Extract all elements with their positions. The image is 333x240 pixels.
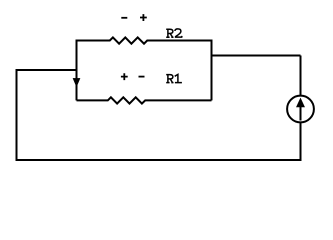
current source I1 [287,96,314,123]
wire bottom [17,159,302,161]
wire junction to source (horizontal) [212,55,301,57]
polarity plus of R1 [121,73,128,80]
label R2 [166,29,182,37]
polarity minus of R1 [139,76,145,78]
wire right vertical above source [300,56,302,97]
wire right inner vertical [211,40,213,101]
wire left outer vertical [16,69,18,161]
wire left horizontal [17,69,77,71]
label R1 [166,74,182,82]
wire left inner vertical [76,40,78,101]
polarity plus of R2 [140,14,147,21]
current direction arrow [73,78,80,86]
resistor R2 [77,37,212,43]
wire right vertical below source [300,123,302,162]
resistor R1 [77,97,212,103]
polarity minus of R2 [121,17,127,19]
